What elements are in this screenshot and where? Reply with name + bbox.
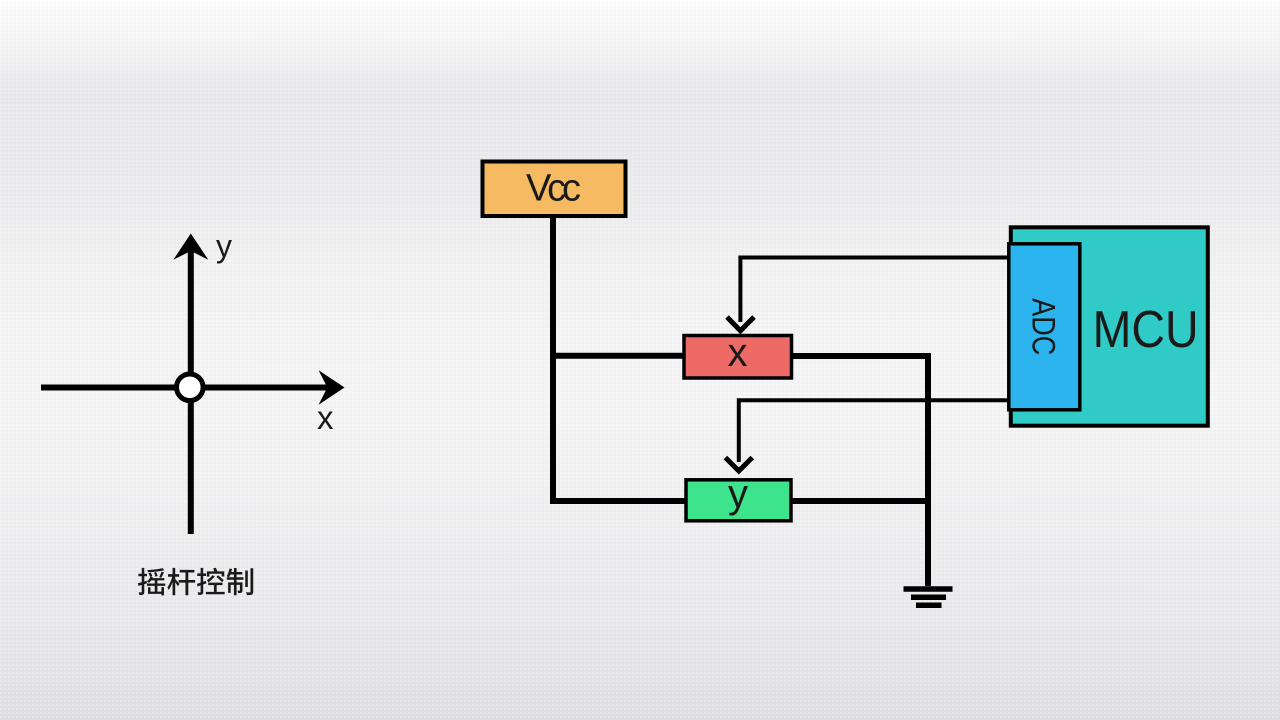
potentiometer x box (684, 336, 792, 379)
caption 摇杆控制 (138, 568, 253, 596)
wire: Vcc to x pot (550, 353, 684, 359)
wire: ADC to y wiper (739, 400, 1009, 462)
arrowhead into y pot (725, 458, 752, 472)
svg-text:x: x (728, 331, 748, 375)
wire: Vcc to y pot (550, 498, 686, 504)
svg-text:y: y (216, 228, 232, 264)
x-axis arrowhead (319, 370, 345, 405)
MCU box (1011, 227, 1208, 425)
joystick axes: horizontal x-axis line (41, 385, 331, 391)
joystick axes: vertical y-axis line (188, 248, 194, 534)
y-axis arrowhead (173, 234, 208, 260)
svg-text:y: y (728, 472, 748, 516)
arrowhead into x pot (727, 317, 754, 331)
svg-text:ADC: ADC (1026, 298, 1062, 355)
potentiometer y box (686, 480, 791, 521)
svg-text:x: x (317, 399, 334, 436)
wire: x pot to ground bus (791, 356, 928, 586)
Vcc box (483, 162, 626, 217)
wire: Vcc stem down (550, 216, 556, 501)
svg-text:MCU: MCU (1093, 301, 1199, 359)
svg-text:Vcc: Vcc (526, 168, 581, 210)
wire: y pot to ground bus (791, 498, 930, 504)
ADC block (1009, 244, 1080, 410)
wire: ADC to x wiper (740, 258, 1009, 323)
joystick knob circle (177, 374, 204, 401)
ground symbol (904, 589, 953, 605)
